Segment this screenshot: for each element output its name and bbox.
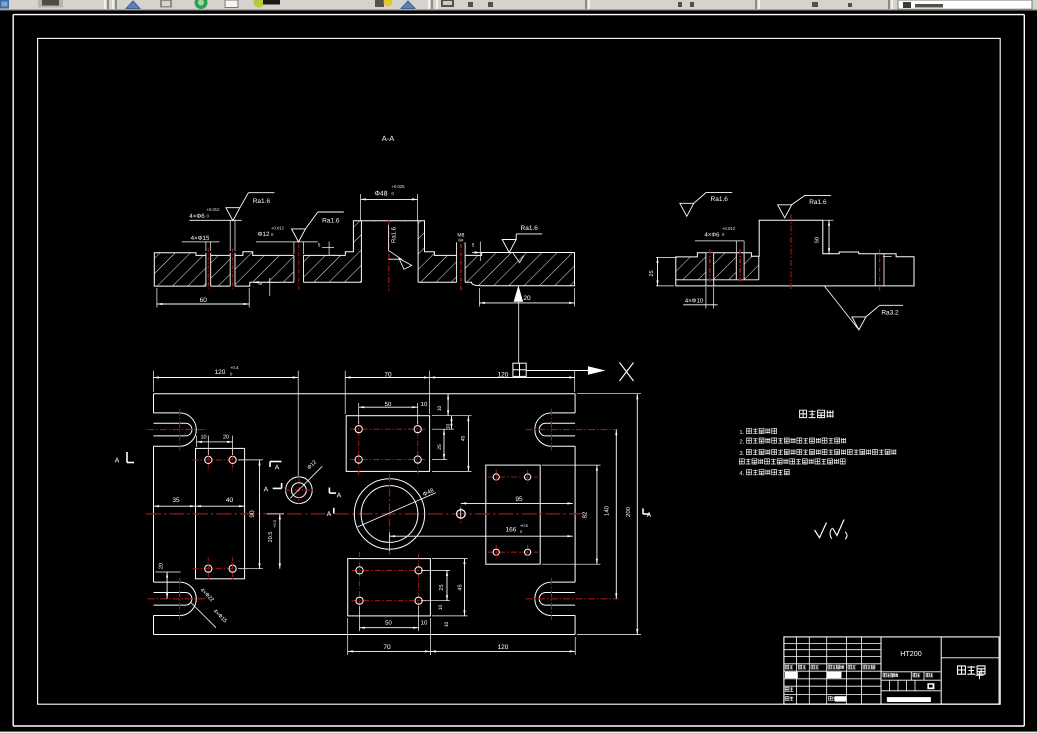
small depth dim 5 at M8: [472, 242, 486, 262]
bore surface Ra1.6 rotated: [388, 225, 411, 269]
svg-text:Ra1.6: Ra1.6: [322, 218, 340, 225]
dimension Phi12 note: [256, 226, 318, 255]
dim 200 vertical: [577, 394, 641, 635]
origin marker UCS box with X axis: [513, 363, 634, 382]
M8 center hole: [457, 505, 466, 523]
side view dim 4xPhi10 note: [683, 287, 717, 309]
side view small mark right: [883, 251, 892, 257]
title block outline: [784, 637, 999, 704]
tech req line 2: [739, 438, 846, 446]
svg-text:Ra1.6: Ra1.6: [711, 196, 729, 203]
center-right pad holes: [488, 470, 538, 560]
title block highlighted cells: [785, 672, 931, 702]
side view dim 4xPhi6 note: [695, 226, 744, 252]
dim 90 vertical: [238, 460, 263, 569]
section mark A left edge: [115, 452, 134, 465]
left pad rectangle: [196, 448, 245, 578]
section mark A left of Phi12: [264, 483, 282, 494]
svg-text:+0.3: +0.3: [273, 520, 277, 528]
svg-text:4×Φ6: 4×Φ6: [189, 213, 205, 220]
svg-text:4×Φ10: 4×Φ10: [685, 298, 704, 305]
section A-A hatched body: [154, 221, 574, 287]
U-slot bottom-right: [526, 578, 619, 620]
title block bottom-left labels: [785, 687, 836, 700]
svg-text:45: 45: [461, 436, 467, 442]
side view body outline: [676, 220, 914, 286]
small step dim 5 bottom left: [253, 278, 276, 296]
dimension 20 bottom right of section: [479, 288, 574, 307]
datum triangle and leader to origin marker: [514, 285, 523, 363]
top pad rectangle: [346, 416, 429, 472]
svg-text:50: 50: [815, 237, 821, 243]
dimension 4xPhi6 note: [189, 207, 241, 251]
dim 70 bottom: [348, 618, 431, 655]
svg-text:40: 40: [226, 497, 234, 504]
svg-text:Ra1.6: Ra1.6: [521, 225, 539, 232]
svg-text:Φ48: Φ48: [375, 191, 388, 198]
U-slot top-left: [148, 409, 206, 451]
svg-text:A: A: [264, 487, 269, 494]
dim 10 and 10 small right of bottom pad: [438, 605, 450, 628]
svg-text:Ra3.2: Ra3.2: [881, 310, 899, 317]
section mark A right of Phi12: [329, 488, 341, 500]
title block left grid: [784, 637, 881, 704]
svg-text:3.: 3.: [739, 450, 744, 457]
svg-text:6H: 6H: [458, 238, 463, 243]
svg-text:HT200: HT200: [900, 649, 922, 658]
U-slot bottom-left: [148, 578, 206, 620]
side view hatched section region: [676, 253, 759, 286]
M8 tapped hole label: [457, 233, 464, 243]
svg-text:Ra1.6: Ra1.6: [253, 198, 271, 205]
side view hidden hole walls right: [875, 254, 884, 286]
plan view outline: [154, 394, 576, 635]
svg-text:70: 70: [383, 644, 391, 651]
overall roughness marks sqrt(sqrt): [815, 520, 847, 540]
svg-text:10: 10: [421, 620, 428, 627]
dim 166+0.5: [390, 523, 573, 551]
svg-text:+0.012: +0.012: [207, 207, 221, 212]
main horizontal centerline: [146, 513, 582, 515]
svg-text:+0.012: +0.012: [271, 226, 285, 231]
svg-text:10: 10: [437, 406, 443, 412]
side view dim 25: [649, 258, 677, 286]
section A-A red centerlines: [208, 220, 461, 292]
bottom pad rectangle: [348, 559, 431, 616]
dim 120 top right: [430, 371, 575, 392]
tech req line 4: [739, 459, 845, 464]
center-right pad rectangle: [486, 465, 540, 564]
central boss circles Phi48: [354, 474, 436, 555]
section mark A far right: [643, 508, 652, 519]
svg-text:+0.4: +0.4: [230, 365, 239, 370]
svg-text:4×Φ15: 4×Φ15: [191, 235, 210, 242]
dim 50 10 above top pad row (x 358-418): [359, 401, 428, 424]
dimension 4xPhi15 note: [182, 235, 220, 251]
svg-text:+0.012: +0.012: [722, 226, 736, 231]
svg-text:Ra1.6: Ra1.6: [391, 226, 398, 243]
section A-A title: [382, 134, 395, 143]
svg-text:20: 20: [223, 435, 229, 441]
svg-text:90: 90: [249, 510, 256, 518]
svg-text:200: 200: [625, 506, 632, 517]
svg-text:A: A: [337, 493, 342, 500]
surface finish Ra1.6 right: [502, 225, 542, 263]
svg-text:20: 20: [523, 295, 531, 302]
toolbar strip (clipped app toolbar): [0, 0, 1037, 10]
Phi12 counterbore feature: [285, 459, 322, 504]
bottom pad holes: [352, 552, 427, 609]
sheet center mark: [976, 671, 984, 679]
svg-text:+0.5: +0.5: [520, 523, 529, 528]
title block HT200: [900, 649, 922, 658]
dimension 60: [157, 288, 249, 308]
U-slot top-right: [526, 409, 619, 451]
left pad holes row2: [193, 557, 251, 580]
surface finish Ra1.6 mid: [292, 212, 344, 242]
svg-text:A: A: [115, 458, 120, 465]
dim 20 bottom-left L: [155, 563, 180, 599]
dim 120 bottom: [430, 637, 575, 655]
svg-text:+0.025: +0.025: [392, 184, 406, 189]
svg-text:A-A: A-A: [382, 134, 395, 143]
title block part name cell: [941, 658, 999, 674]
dim 120+0.4 top left: [154, 365, 299, 476]
svg-text:140: 140: [604, 505, 611, 516]
svg-text:82: 82: [582, 511, 589, 518]
dim 25 right of bottom pad: [421, 570, 450, 600]
dim 45 right of bottom pad: [432, 559, 468, 616]
svg-text:35: 35: [172, 497, 180, 504]
svg-text:2.: 2.: [739, 439, 744, 446]
left pad holes row1: [193, 448, 251, 471]
section A-A bore walls and hole walls: [206, 221, 465, 286]
svg-text:25: 25: [437, 444, 443, 450]
svg-text:10: 10: [438, 605, 444, 611]
title block middle cells: [881, 672, 941, 691]
svg-text:50: 50: [385, 620, 392, 627]
dim 50 10 under bottom pad: [360, 606, 428, 631]
slot labels 4xPhi22 4xPhi15: [191, 587, 228, 627]
svg-text:10: 10: [200, 435, 206, 441]
svg-text:A: A: [647, 512, 652, 519]
svg-text:10: 10: [444, 622, 450, 628]
section mark A near centerline: [327, 508, 334, 518]
dim 140 vertical: [604, 430, 618, 599]
dim 10 20 small top left: [197, 435, 233, 456]
tech req line 3: [739, 449, 896, 457]
status bar top edge: [0, 732, 1037, 734]
side view red centerlines: [710, 214, 880, 291]
svg-text:A: A: [275, 465, 280, 472]
tech req line 1: [739, 428, 776, 436]
technical requirements title: [800, 410, 834, 417]
svg-text:10: 10: [421, 401, 428, 408]
svg-text:120: 120: [215, 369, 226, 376]
dimension Phi48: [361, 184, 418, 221]
dim 82 vertical: [542, 465, 601, 564]
dim 35 40: [154, 497, 245, 507]
svg-text:1.: 1.: [739, 430, 744, 436]
svg-text:Φ12: Φ12: [258, 231, 270, 238]
side view dim 50 boss: [815, 220, 834, 254]
dim 10 10 25 45 right of top pad: [432, 394, 472, 472]
dim 70 top: [345, 371, 429, 414]
side view surface Ra1.6 left: [680, 192, 732, 216]
side view Ra3.2 leader: [824, 286, 903, 330]
dim 95: [461, 496, 573, 519]
svg-text:60: 60: [200, 297, 208, 304]
surface finish Ra1.6 left: [226, 193, 275, 221]
svg-text:25: 25: [439, 584, 445, 590]
top pad holes: [350, 421, 426, 475]
svg-text:20.5: 20.5: [268, 532, 274, 543]
dim 20.5 vertical: [267, 514, 284, 569]
section mark A above Phi12: [270, 462, 282, 472]
svg-text:45: 45: [458, 584, 464, 590]
tech req line 5: [739, 470, 789, 478]
svg-text:20: 20: [159, 563, 165, 569]
svg-text:Ra1.6: Ra1.6: [809, 199, 827, 206]
small step dim at x329: [318, 242, 334, 256]
svg-text:4.: 4.: [739, 471, 744, 477]
svg-text:166: 166: [506, 527, 517, 534]
side view surface Ra1.6 boss: [778, 195, 831, 217]
svg-text:4×Φ6: 4×Φ6: [705, 232, 721, 239]
svg-text:95: 95: [515, 496, 523, 503]
svg-text:120: 120: [498, 644, 509, 651]
title block header tiny texts: [785, 665, 875, 669]
svg-text:25: 25: [649, 270, 655, 276]
svg-text:A: A: [327, 511, 332, 518]
